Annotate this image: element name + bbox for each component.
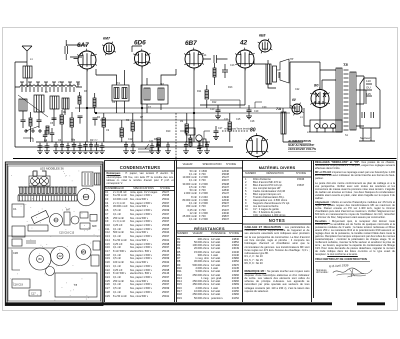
svg-text:R9: R9 [180, 120, 184, 123]
svg-text:C7: C7 [148, 106, 152, 109]
svg-text:C12: C12 [94, 140, 99, 142]
svg-text:R7: R7 [140, 116, 144, 119]
svg-text:L1: L1 [30, 58, 33, 61]
svg-text:7A: 7A [276, 106, 281, 111]
svg-text:R1: R1 [63, 111, 67, 114]
svg-text:C4: C4 [44, 139, 48, 142]
svg-text:C20: C20 [262, 106, 267, 109]
svg-text:C6: C6 [112, 101, 116, 104]
svg-text:6D6: 6D6 [134, 40, 146, 47]
svg-text:C16: C16 [188, 138, 193, 141]
svg-text:R10: R10 [166, 130, 171, 133]
svg-text:C6: C6 [58, 139, 62, 142]
svg-text:HP: HP [290, 58, 294, 61]
svg-text:C14: C14 [202, 54, 207, 57]
svg-text:42: 42 [58, 254, 62, 258]
svg-text:6M7: 6M7 [103, 37, 111, 41]
svg-text:R6: R6 [126, 119, 130, 122]
svg-text:6A7: 6A7 [54, 218, 59, 222]
svg-text:R4: R4 [97, 116, 101, 119]
svg-text:Secteur: Secteur [360, 136, 370, 140]
svg-text:6E8: 6E8 [259, 34, 265, 38]
svg-text:LES MODELES 36: LES MODELES 36 [40, 167, 64, 171]
svg-text:C17: C17 [218, 127, 223, 130]
svg-text:OU: OU [366, 86, 371, 90]
svg-text:R12: R12 [212, 101, 217, 104]
svg-text:C15: C15 [236, 118, 241, 121]
svg-text:L1: L1 [300, 116, 303, 119]
svg-text:42: 42 [239, 40, 248, 47]
svg-text:C18 C19: C18 C19 [13, 284, 23, 287]
svg-text:T8: T8 [343, 62, 348, 67]
svg-text:C1: C1 [13, 207, 17, 211]
svg-text:C5: C5 [50, 122, 54, 125]
svg-text:C11: C11 [224, 118, 229, 121]
svg-text:C19: C19 [254, 110, 259, 113]
svg-text:80: 80 [38, 257, 42, 261]
svg-text:6V: 6V [292, 98, 297, 102]
svg-text:C12: C12 [128, 138, 133, 141]
svg-text:L2: L2 [45, 91, 48, 94]
svg-text:C22: C22 [295, 88, 300, 91]
svg-text:6A7: 6A7 [77, 42, 89, 49]
svg-text:6B7: 6B7 [185, 40, 197, 47]
svg-text:R11: R11 [197, 90, 202, 93]
svg-text:C17: C17 [31, 293, 36, 296]
svg-text:C8: C8 [72, 139, 76, 142]
svg-text:7F2: 7F2 [160, 83, 165, 86]
svg-text:C10: C10 [210, 108, 215, 111]
svg-text:C15 C16 C13: C15 C16 C13 [59, 232, 75, 235]
svg-text:6D6: 6D6 [83, 195, 89, 199]
svg-text:mise sous/ hors tension: mise sous/ hors tension [224, 127, 252, 131]
svg-text:T8: T8 [74, 283, 78, 287]
svg-text:6A7: 6A7 [66, 209, 71, 212]
svg-text:110/130/230 VOLTS: 110/130/230 VOLTS [288, 147, 317, 151]
svg-text:C18: C18 [250, 120, 255, 123]
svg-text:6B7: 6B7 [81, 250, 87, 254]
svg-text:C9: C9 [106, 129, 110, 132]
svg-text:R13: R13 [228, 86, 233, 89]
svg-text:L4: L4 [77, 83, 80, 86]
svg-text:L5: L5 [58, 81, 61, 84]
svg-text:C2B: C2B [13, 252, 18, 255]
svg-text:80: 80 [314, 83, 319, 88]
svg-text:110: 110 [366, 79, 371, 83]
svg-text:7F1: 7F1 [116, 82, 121, 85]
svg-text:S1: S1 [345, 134, 349, 137]
svg-text:C13: C13 [230, 64, 235, 67]
svg-text:115: 115 [366, 92, 371, 96]
